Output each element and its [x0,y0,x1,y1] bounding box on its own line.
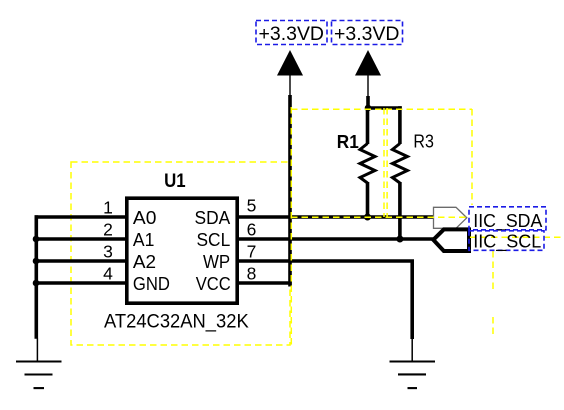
wire left bus vertical [34,215,38,338]
net label +3.3VD right [332,21,403,46]
svg-text:VCC: VCC [196,274,231,294]
power symbol arrow 2 [355,50,381,97]
svg-text:+3.3VD: +3.3VD [259,23,325,45]
wire A1 pin2 [35,237,125,241]
wire WP pin7 [239,259,414,263]
ground left [16,339,62,389]
wire GND pin4 [35,281,125,285]
svg-text:7: 7 [247,242,257,262]
svg-text:IIC_SCL: IIC_SCL [473,231,541,253]
svg-text:AT24C32AN_32K: AT24C32AN_32K [104,311,249,333]
junction node pin2 bus [33,236,40,243]
svg-text:IIC_SDA: IIC_SDA [473,210,543,232]
svg-text:6: 6 [247,220,257,240]
junction node power top [365,105,372,112]
yellow selection edges between R1 and R3 [383,108,385,217]
svg-text:A2: A2 [133,252,156,272]
junction node pin3 bus [33,258,40,265]
wire WP vertical to ground [410,261,414,339]
net label IIC_SCL [469,231,544,253]
chip U1 box [127,198,237,303]
wire A2 pin3 [35,259,125,263]
yellow selection edge on VCC wire [290,107,292,345]
wire A0 pin1 [35,215,125,219]
svg-text:SCL: SCL [197,230,231,250]
svg-text:2: 2 [103,220,113,240]
port IIC_SDA (gray) [434,207,467,228]
wire R1 bottom [366,182,370,217]
svg-text:+3.3VD: +3.3VD [334,23,400,45]
yellow selection rect around resistor network (top edge) [291,108,472,110]
net label +3.3VD left [256,21,327,46]
yellow selection edge below IIC_SCL [492,317,494,337]
wire SCL pin6 [239,237,434,241]
yellow selection edge through IIC_SCL [470,236,564,238]
net label IIC_SDA [469,207,546,232]
power symbol arrow 1 [277,50,303,97]
resistor R1 body [360,144,375,184]
svg-text:1: 1 [103,198,113,218]
yellow selection edge right of SCL port [492,251,494,289]
svg-text:WP: WP [203,252,230,272]
svg-text:R3: R3 [413,132,434,152]
svg-text:5: 5 [247,196,257,216]
resistor R3 body [392,144,407,184]
junction node R1 bottom [364,214,371,221]
wire R3 top [398,106,402,144]
wire resistor top horizontal [366,106,402,110]
port IIC_SCL (black) [433,229,469,251]
wire R3 bottom [398,182,402,239]
svg-text:4: 4 [103,264,113,284]
svg-text:GND: GND [133,274,170,294]
wire R1 top [366,108,370,144]
svg-text:SDA: SDA [195,208,231,228]
yellow selection edge on SDA wire [291,216,467,218]
ground middle [390,339,436,388]
svg-text:A1: A1 [133,230,155,250]
junction node pin4 bus [33,280,40,287]
svg-text:8: 8 [247,264,257,284]
wire +3.3VD right stub [366,96,370,109]
svg-text:U1: U1 [164,171,186,192]
yellow selection edge right of resistors [471,109,473,205]
wire +3.3VD left vertical [288,95,292,287]
svg-text:3: 3 [103,242,113,262]
wire VCC pin8 [239,281,292,285]
svg-text:R1: R1 [337,132,359,152]
yellow selection rect around U1 [71,162,290,345]
svg-text:A0: A0 [133,208,157,228]
wire SDA pin5 [239,215,434,219]
junction node R3 bottom [396,236,403,243]
